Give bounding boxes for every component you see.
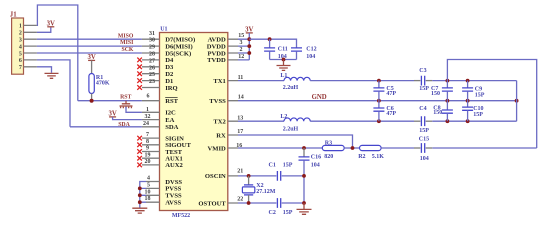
svg-text:104: 104	[306, 54, 315, 60]
svg-text:30: 30	[149, 38, 155, 44]
svg-text:15P: 15P	[283, 162, 293, 168]
svg-text:27.12M: 27.12M	[256, 189, 276, 195]
svg-text:1: 1	[146, 107, 149, 113]
power 3V (R1 pullup)	[87, 54, 95, 74]
node VDD bus junctions	[247, 37, 251, 41]
node OSTOUT junctions	[247, 201, 251, 205]
node TX1 junctions	[377, 79, 381, 83]
svg-text:7: 7	[19, 65, 22, 71]
svg-text:104: 104	[420, 156, 429, 162]
svg-text:28: 28	[149, 52, 155, 58]
capacitor C1 series	[269, 162, 305, 180]
capacitor C9	[462, 81, 485, 101]
svg-text:2.2uH: 2.2uH	[283, 85, 299, 91]
svg-text:12: 12	[238, 54, 244, 60]
wire C15 to antenna	[432, 147, 536, 149]
svg-text:7: 7	[146, 132, 149, 138]
resistor R3	[322, 140, 344, 160]
svg-text:L1: L1	[280, 73, 287, 79]
wire AVDD to decoupling caps	[249, 39, 296, 48]
op-amp U1 chip body MF522	[160, 26, 228, 219]
svg-text:U1: U1	[160, 26, 167, 32]
svg-text:3V: 3V	[47, 20, 55, 27]
svg-text:MISI: MISI	[120, 40, 134, 46]
wire SDA	[70, 126, 142, 128]
svg-text:31: 31	[149, 31, 155, 37]
svg-text:SCK: SCK	[121, 47, 133, 53]
capacitor C2 series	[269, 198, 305, 216]
capacitor C3 series	[414, 68, 432, 92]
wire SCK	[37, 52, 142, 54]
svg-text:OSTOUT: OSTOUT	[198, 200, 226, 207]
wire J1 pin7 to ground	[37, 67, 52, 73]
chip left NC pin stubs SIGIN-AUX2	[142, 138, 160, 165]
node VMID junction C16	[302, 146, 306, 150]
svg-text:29: 29	[149, 45, 155, 51]
svg-text:4: 4	[19, 44, 22, 50]
svg-text:TVDD: TVDD	[207, 57, 226, 64]
svg-text:EA: EA	[165, 117, 174, 124]
capacitor C4 series	[414, 106, 432, 134]
wire RX from pin to divider	[238, 135, 353, 148]
svg-text:15: 15	[238, 33, 244, 39]
capacitor C15 series	[414, 137, 432, 162]
chip VSS pins bus	[138, 182, 160, 208]
svg-text:2: 2	[19, 31, 22, 37]
svg-text:25: 25	[149, 72, 155, 78]
svg-text:150: 150	[433, 110, 442, 116]
svg-text:47P: 47P	[386, 111, 396, 117]
svg-text:15P: 15P	[419, 128, 429, 134]
inductor L1	[280, 73, 310, 91]
svg-text:AUX2: AUX2	[165, 162, 183, 169]
svg-text:TX2: TX2	[213, 119, 226, 126]
svg-text:SDA: SDA	[118, 122, 130, 128]
crystal X2	[242, 176, 275, 203]
svg-text:C4: C4	[419, 106, 426, 112]
svg-text:RX: RX	[216, 132, 226, 139]
pin numbers left side	[143, 31, 155, 202]
svg-text:5.1K: 5.1K	[372, 154, 385, 160]
wire TX1	[238, 80, 284, 82]
svg-text:18: 18	[145, 196, 151, 202]
svg-text:J1: J1	[10, 12, 17, 19]
wire TVSS	[238, 100, 517, 102]
capacitor C10	[462, 101, 483, 122]
chip pin labels right	[198, 37, 226, 208]
wire OSTOUT	[238, 202, 276, 204]
capacitor C16	[299, 148, 322, 203]
svg-text:2.2uH: 2.2uH	[283, 126, 299, 132]
wire J1 pin1 to RST	[37, 5, 78, 101]
node RST junction	[90, 99, 94, 103]
chip pin labels left	[165, 37, 195, 207]
capacitor C6	[373, 101, 396, 122]
ground (C11 C12)	[277, 60, 291, 71]
svg-text:15P: 15P	[419, 86, 429, 92]
wire R3 to R2	[344, 147, 359, 149]
svg-text:470K: 470K	[96, 80, 110, 86]
svg-text:23: 23	[149, 79, 155, 85]
svg-text:15P: 15P	[475, 92, 485, 98]
wire R2 to C15	[381, 147, 414, 149]
svg-text:SDA: SDA	[165, 124, 178, 131]
svg-text:MF522: MF522	[172, 213, 190, 219]
wire OSCIN	[238, 175, 276, 177]
wire TX2 after L2	[310, 120, 414, 122]
svg-text:IRQ: IRQ	[165, 85, 177, 92]
wire TX1 after L1	[310, 80, 414, 82]
svg-text:3: 3	[19, 38, 22, 44]
svg-text:10: 10	[145, 189, 151, 195]
svg-text:9: 9	[146, 146, 149, 152]
wire J1 pin2 to 3V	[37, 27, 51, 32]
svg-text:OSCIN: OSCIN	[205, 173, 226, 180]
svg-text:TVSS: TVSS	[209, 98, 226, 105]
chip right pin stubs	[228, 39, 238, 203]
chip left NC pin stubs D4-IRQ	[142, 60, 160, 88]
inductor L2	[280, 114, 310, 133]
svg-text:4: 4	[147, 175, 150, 181]
svg-text:I2C: I2C	[165, 110, 176, 117]
svg-text:GND: GND	[312, 94, 327, 101]
svg-text:C12: C12	[306, 47, 316, 53]
svg-text:AVSS: AVSS	[165, 200, 181, 207]
resistor R2	[358, 145, 384, 160]
svg-text:C11: C11	[278, 47, 288, 53]
ground (J1 pin7)	[45, 73, 59, 78]
svg-text:15P: 15P	[473, 112, 483, 118]
wire MISI	[37, 45, 142, 47]
power 3V (EA pin)	[108, 110, 141, 119]
capacitor C7	[431, 81, 453, 101]
svg-text:104: 104	[311, 163, 320, 169]
wire J1 pin6 to SDA	[37, 60, 70, 127]
svg-text:2: 2	[240, 47, 243, 53]
node TVSS junctions	[377, 99, 381, 103]
svg-text:C1: C1	[269, 162, 276, 168]
svg-text:8: 8	[146, 139, 149, 145]
svg-text:5: 5	[19, 51, 22, 57]
svg-text:20: 20	[145, 159, 151, 165]
svg-text:C3: C3	[419, 68, 426, 74]
svg-text:C15: C15	[419, 137, 429, 143]
svg-text:VMID: VMID	[207, 145, 226, 152]
no-connect X marks SIGIN-AUX2	[137, 136, 142, 167]
node OSCIN junctions	[247, 174, 251, 178]
wire antenna top loop	[447, 60, 536, 149]
capacitor C11	[264, 39, 288, 60]
svg-text:19: 19	[145, 152, 151, 158]
svg-text:21: 21	[237, 169, 243, 175]
wire TX2	[238, 120, 284, 122]
capacitor C8	[433, 101, 453, 122]
no-connect X marks D4-IRQ	[137, 58, 142, 90]
svg-text:C16: C16	[311, 155, 321, 161]
svg-text:TX1: TX1	[213, 78, 225, 85]
wire VDD bus vertical	[238, 39, 249, 60]
wire VMID	[238, 147, 322, 149]
capacitor C5	[373, 81, 396, 101]
connector J1	[10, 12, 37, 75]
svg-text:14: 14	[238, 95, 244, 101]
svg-text:R2: R2	[358, 154, 365, 160]
ground (VSS bus)	[132, 208, 147, 213]
svg-text:32: 32	[145, 114, 151, 120]
node TX2 junctions	[377, 119, 381, 123]
svg-text:5: 5	[147, 182, 150, 188]
pin numbers right side	[236, 33, 244, 202]
svg-text:820: 820	[324, 154, 333, 160]
svg-text:MISO: MISO	[118, 33, 134, 39]
wire MISO	[37, 38, 142, 40]
capacitor C12	[291, 47, 317, 61]
chip left pin stubs connected	[142, 39, 160, 127]
svg-text:22: 22	[237, 196, 243, 202]
resistor R1	[89, 74, 110, 101]
svg-text:RST: RST	[165, 98, 178, 105]
power 3V (J1 pin2)	[47, 20, 55, 27]
wire C11-C12 bottom	[270, 59, 297, 61]
svg-text:3: 3	[240, 40, 243, 46]
svg-text:RST: RST	[120, 95, 131, 101]
wire RST	[78, 100, 142, 102]
svg-text:C2: C2	[269, 210, 276, 216]
svg-text:26: 26	[149, 65, 155, 71]
power 3V (VDD bus)	[245, 26, 253, 39]
svg-text:17: 17	[237, 129, 243, 135]
svg-text:24: 24	[143, 121, 149, 127]
svg-text:6: 6	[147, 94, 150, 100]
svg-text:150: 150	[431, 91, 440, 97]
svg-text:15P: 15P	[283, 210, 293, 216]
svg-text:27: 27	[149, 58, 155, 64]
svg-text:47P: 47P	[386, 91, 396, 97]
ground (oscillator)	[297, 203, 312, 214]
svg-text:1: 1	[19, 24, 22, 30]
wire TX1 to antenna	[432, 80, 516, 82]
wire TX2 right	[432, 81, 516, 122]
svg-text:6: 6	[19, 58, 22, 64]
capacitor symbol on RST to I2C	[120, 101, 142, 113]
